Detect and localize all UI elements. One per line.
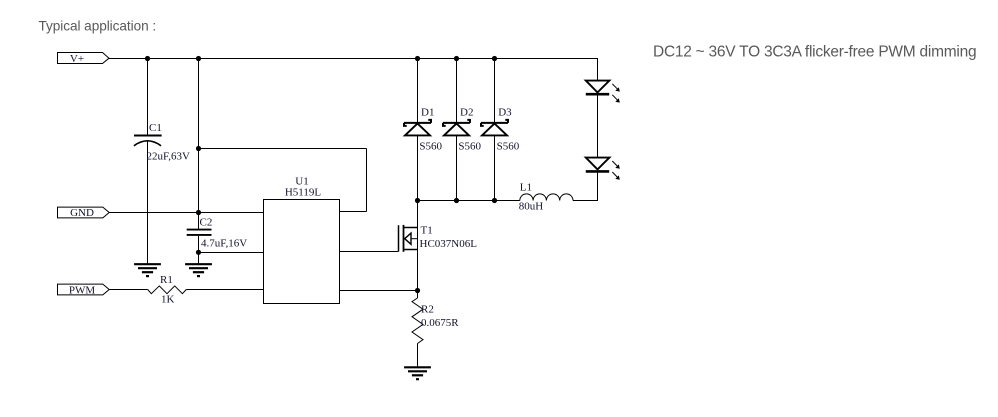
svg-text:4.7uF,16V: 4.7uF,16V — [201, 238, 247, 250]
LED LED1 — [586, 81, 620, 103]
wire PWM to R1 — [109, 289, 148, 291]
svg-text:S560: S560 — [497, 141, 520, 153]
ground under C1 — [134, 264, 161, 276]
svg-text:C1: C1 — [149, 122, 162, 134]
svg-text:D1: D1 — [421, 107, 434, 119]
LED LED2 — [586, 158, 620, 180]
wire VIN branch vertical — [366, 149, 368, 212]
svg-text:R2: R2 — [421, 304, 434, 316]
svg-text:U1: U1 — [295, 175, 308, 187]
wire V+ vertical branch — [198, 59, 200, 213]
diode D1 — [404, 59, 443, 201]
wire U1 gate lead — [340, 251, 399, 253]
svg-text:22uF,63V: 22uF,63V — [147, 151, 190, 163]
junction V+ rail / C1 — [145, 56, 150, 61]
wire between LEDs — [597, 95, 599, 159]
svg-text:Typical application :: Typical application : — [39, 18, 157, 33]
svg-text:D2: D2 — [460, 107, 473, 119]
junction switch node / D3 — [492, 198, 497, 203]
wire U1 bottom right pin — [340, 290, 418, 292]
svg-text:S560: S560 — [458, 141, 481, 153]
wire L1 to right branch — [573, 200, 598, 202]
wire C2 top lead — [198, 213, 200, 229]
wire right branch LED2 to corner — [597, 171, 599, 201]
node V+ terminal — [58, 53, 110, 66]
svg-text:80uH: 80uH — [519, 201, 544, 213]
inductor L1 — [519, 181, 573, 212]
wire switch rail — [418, 200, 520, 202]
wire R1 to U1 — [186, 289, 263, 291]
ground under C2 — [185, 264, 212, 276]
capacitor C1 — [134, 122, 190, 162]
svg-text:L1: L1 — [520, 181, 532, 193]
svg-text:C2: C2 — [200, 217, 213, 229]
junction V+ rail / D1 — [415, 56, 420, 61]
wire right branch down to LED1 — [597, 59, 599, 82]
wire VIN branch horizontal — [199, 148, 367, 150]
junction GND line / C2 top — [196, 210, 201, 215]
wire C2 bottom lead to ground — [198, 236, 200, 264]
svg-text:D3: D3 — [498, 107, 512, 119]
junction V+ rail / D3 — [492, 56, 497, 61]
junction source / R2 node — [415, 288, 420, 293]
svg-text:PWM: PWM — [69, 284, 96, 296]
svg-text:R1: R1 — [160, 274, 173, 286]
svg-text:HC037N06L: HC037N06L — [420, 238, 478, 250]
svg-text:H5119L: H5119L — [285, 187, 322, 199]
node GND terminal — [58, 207, 110, 219]
wire GND to U1 — [109, 212, 263, 214]
wire drain/source vertical — [417, 201, 419, 291]
svg-text:0.0675R: 0.0675R — [421, 317, 459, 329]
wire V+ rail — [109, 58, 598, 60]
transistor T1 mosfet — [399, 225, 478, 252]
capacitor C2 — [187, 217, 248, 250]
wire C2 node to U1 pin — [199, 252, 264, 254]
junction VIN branch tap — [196, 146, 201, 151]
wire VIN branch to U1 — [340, 211, 367, 213]
svg-text:V+: V+ — [70, 53, 84, 65]
junction V+ rail / D2 — [454, 56, 459, 61]
resistor R1 — [148, 274, 187, 306]
svg-text:DC12 ~ 36V TO 3C3A flicker-fre: DC12 ~ 36V TO 3C3A flicker-free PWM dimm… — [653, 43, 976, 60]
junction V+ rail / VIN branch — [196, 56, 201, 61]
op-amp U1 (IC H5119L) — [264, 175, 340, 303]
resistor R2 — [412, 291, 459, 368]
diode D2 — [443, 59, 482, 201]
wire C1 top — [147, 59, 149, 136]
svg-text:T1: T1 — [421, 225, 433, 237]
diode D3 — [481, 59, 520, 201]
wire C1 bottom to ground — [147, 141, 149, 264]
svg-text:1K: 1K — [161, 294, 175, 306]
ground under R2 — [404, 367, 431, 379]
junction C2 bottom node — [196, 250, 201, 255]
node PWM terminal — [58, 284, 110, 296]
svg-text:S560: S560 — [419, 141, 442, 153]
svg-text:GND: GND — [70, 207, 94, 219]
junction switch node / D1 / drain — [415, 198, 420, 203]
junction switch node / D2 — [454, 198, 459, 203]
